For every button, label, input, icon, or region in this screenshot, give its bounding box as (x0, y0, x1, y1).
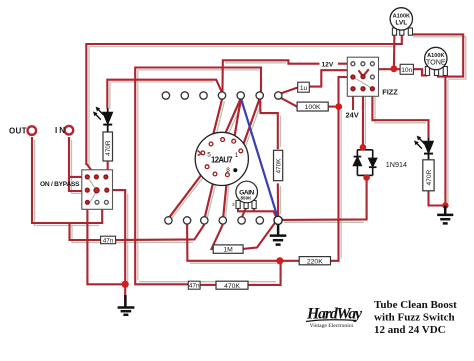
resistor 470K bottom (216, 281, 248, 290)
svg-text:IN: IN (55, 126, 65, 135)
wire: bottom circle 4 to 1M resistor (212, 225, 223, 249)
wire: GAIN wiper to bottom circle 5 (242, 208, 246, 217)
wire: GAIN lug3 stub (253, 208, 255, 211)
wire: 47n cap to bottom terminal circle 3 (116, 225, 205, 241)
capacitor 10n (400, 64, 413, 74)
wire: tube pin bottom-left to bottom circle 1 (169, 168, 206, 217)
wire: IN tee to top-left lug (69, 176, 87, 178)
potentiometer A100K TONE (425, 47, 448, 75)
bypass switch lugs (85, 175, 108, 204)
potentiometer GAIN (232, 181, 258, 208)
wire: terminal circle 7 to 1u cap (281, 88, 298, 94)
junction dot diode bottom (363, 174, 370, 181)
wire: diagonal from rail into bypass switch top-middle lug (86, 164, 96, 177)
svg-text:470R: 470R (426, 169, 433, 185)
wire: FIZZ lever to junction dot and 10n cap (363, 69, 400, 76)
svg-text:12V: 12V (322, 61, 334, 68)
wire: bypass switch lever diagonal to middle-centre lug (97, 191, 103, 210)
diodes 1N914 anti-parallel pair (354, 150, 377, 176)
logo HardWay Vintage Electronics (306, 306, 363, 330)
resistor 470R left (103, 132, 113, 161)
junction dot ground bus left (122, 281, 129, 288)
svg-text:with Fuzz Switch: with Fuzz Switch (374, 312, 455, 324)
label +12V (320, 59, 339, 68)
wire: net from y67.5 rail down left side to bottom 47n/470K row (135, 68, 261, 285)
junction dot right ground (442, 202, 448, 208)
wire: between bottom 47n and bottom 470K (200, 284, 216, 286)
wire: LVL lug3 loop around to TONE lugs 2-3 (410, 34, 463, 76)
wire: right 470R bottom to ground dot (429, 191, 446, 206)
title text (374, 299, 457, 336)
capacitor 47n second (188, 281, 200, 290)
wire: bypass bottom-left lug down to ground bus (87, 203, 125, 284)
LED right (414, 136, 433, 160)
wire: FIZZ bottom-centre lug down to clipping diodes (362, 91, 364, 147)
wire: 1u cap to FIZZ middle-centre lug (309, 70, 363, 86)
svg-text:24V: 24V (346, 111, 359, 120)
svg-text:5: 5 (207, 151, 211, 158)
wire: 220K right up to FIZZ middle-left lug (331, 77, 353, 261)
switch FIZZ DPDT (347, 57, 378, 96)
wire: tube pin bottom-right to bottom circle 4 (223, 177, 227, 217)
FIZZ lever wire (359, 69, 369, 76)
wire: terminal circle 6 jog to top of 470K (260, 100, 278, 150)
resistor 470K vertical (274, 150, 283, 180)
wire: 12V top rail from tube column to LVL wiper (86, 30, 402, 165)
wire: junction dot to 220K left (280, 260, 299, 262)
OUT jack (28, 126, 37, 135)
tube pin stubs (201, 138, 243, 177)
capacitor 1u (298, 82, 310, 92)
junction dot at 10n (391, 65, 398, 72)
svg-text:10n: 10n (401, 67, 412, 74)
svg-text:3: 3 (232, 202, 235, 207)
wire: blue wire top circle 5 to central node (241, 100, 277, 218)
resistor 220K (299, 257, 330, 266)
svg-text:LVL: LVL (395, 20, 407, 27)
wire: tube pin bottom to bottom circle 3 (205, 176, 215, 217)
svg-text:470R: 470R (105, 140, 112, 156)
svg-text:FIZZ: FIZZ (382, 88, 398, 97)
svg-text:850K: 850K (241, 196, 253, 201)
wire: branch from OUT wire down to first 47n cap rail (70, 223, 101, 240)
wire: 1M right to central node (243, 223, 275, 249)
svg-text:TONE: TONE (426, 58, 446, 67)
terminal strip top row (162, 92, 282, 99)
wire: bottom circle 2 down to 260 bus to junction dot (187, 225, 280, 261)
wire: terminal circle 7 to 100K left (281, 98, 297, 107)
wire: 100K right to dot on 220K riser (328, 106, 339, 108)
svg-text:47n: 47n (103, 237, 114, 244)
wire: top circle 4 to tube pin top-left (211, 100, 222, 143)
wire: FIZZ bottom-left lug to 24V feed (352, 91, 354, 110)
junction dot 100K/220K riser (335, 103, 342, 110)
switch ON/BYPASS 3PDT (82, 170, 113, 210)
wire: TONE lug3 down to right ground dot (444, 77, 446, 206)
potentiometer A100K LVL (390, 8, 412, 36)
svg-text:470K: 470K (224, 283, 240, 290)
svg-text:470K: 470K (276, 158, 283, 174)
wire: LVL lug1 down to 10n junction dot (393, 35, 396, 69)
ground symbol centre at node (270, 225, 287, 245)
svg-text:220K: 220K (307, 258, 323, 265)
wire: GAIN lugs 1-3 bus to central node (238, 208, 277, 218)
resistor 1M (213, 245, 243, 254)
IN jack (65, 126, 74, 135)
svg-text:Vintage Electronics: Vintage Electronics (310, 323, 354, 329)
wire: bypass middle-right lug to ground bus (107, 190, 125, 284)
wire: IN jack down to bypass switch left lugs (69, 137, 87, 191)
svg-text:ON / BYPASS: ON / BYPASS (40, 181, 80, 188)
resistor 100K (297, 102, 328, 111)
wire: 470R left bottom to bypass top-right lug (107, 161, 109, 175)
junction dot diode top (360, 144, 367, 151)
wire: +12V feed from terminal circle 4 to FIZZ top-left lug (222, 60, 353, 99)
node: central star ground node (274, 216, 282, 224)
wire: top circle 5 to tube pin top-right (234, 100, 241, 140)
pin 5 stub mark (198, 151, 202, 156)
svg-text:1M: 1M (223, 247, 233, 254)
svg-text:1N914: 1N914 (386, 160, 407, 169)
svg-text:1u: 1u (300, 85, 308, 92)
svg-text:100K: 100K (305, 104, 321, 111)
svg-text:47n: 47n (189, 283, 200, 290)
wire: anode rail y=80 to terminal circle 4 and down to LED (107, 80, 222, 109)
wire: 10n cap to TONE lug 1 (413, 69, 427, 75)
svg-text:Tube Clean Boost: Tube Clean Boost (374, 299, 457, 311)
svg-text:OUT: OUT (9, 127, 27, 136)
ground symbol left (118, 295, 135, 315)
wire: top circle 5 to tube pin top (223, 100, 240, 139)
wire: OUT jack down and right to bypass switch lever (32, 137, 102, 223)
capacitor 47n first (101, 236, 116, 244)
ground symbol right (437, 206, 453, 224)
junction dot bottom 260 bus (276, 257, 283, 264)
wire: 470K bottom to central node (277, 183, 279, 216)
tube socket 12AU7 (195, 132, 248, 185)
svg-text:1: 1 (235, 152, 239, 159)
svg-text:12AU7: 12AU7 (211, 156, 233, 165)
tube index dot (233, 168, 237, 172)
wire: diode pair bottom to central node (282, 178, 367, 220)
terminal strip bottom row (165, 217, 264, 224)
FIZZ lugs (351, 62, 374, 91)
svg-text:12 and 24 VDC: 12 and 24 VDC (374, 324, 446, 336)
wire: from bottom 470K right up to junction dot (248, 262, 281, 285)
LED left (93, 107, 112, 132)
wire: FIZZ bottom-right lug to right LED chain (372, 91, 428, 139)
svg-text:8: 8 (226, 167, 230, 174)
ghost shadow lines of original schematic (35, 37, 466, 282)
wire: ground bus stem (124, 284, 126, 306)
wire: top circle 6 to tube pin 1 (242, 100, 260, 150)
resistor 470R right (423, 160, 434, 191)
